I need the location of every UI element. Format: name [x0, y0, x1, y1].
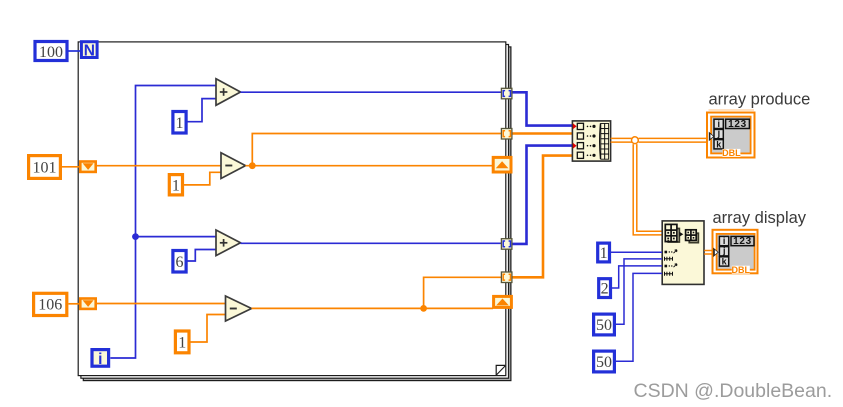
svg-text:i: i [98, 351, 102, 368]
2D array wire junction to array produce [639, 138, 710, 142]
svg-text:DBL: DBL [722, 148, 741, 158]
wire 50 to subset [616, 259, 662, 324]
array wire T1 to build array input1 [512, 92, 572, 125]
wire SR2 to sub2 [96, 303, 226, 305]
wire add2 output to tunnel T3 [241, 242, 502, 244]
wire 1 to subset [611, 251, 662, 253]
numeric constant 2 (subset index1) [599, 279, 611, 298]
wire 106 to shift register [69, 303, 81, 305]
numeric constant 101 [29, 156, 61, 179]
svg-text:1: 1 [172, 177, 180, 194]
loop count terminal N [81, 42, 97, 60]
add function U1 [216, 79, 241, 106]
numeric constant 106 [34, 293, 67, 315]
subtract function U2 [221, 153, 246, 179]
svg-text:101: 101 [33, 159, 57, 176]
tunnel T1 blue indexing [501, 88, 512, 99]
svg-text:array produce: array produce [709, 91, 811, 109]
tunnel T4 orange indexing [501, 272, 512, 283]
svg-text:6: 6 [176, 254, 184, 271]
for-loop back page 1 [81, 45, 509, 379]
wire 6 to add2 [188, 250, 217, 262]
svg-text:100: 100 [39, 44, 63, 61]
svg-text:1: 1 [600, 245, 608, 262]
junction on sub1 output [249, 162, 256, 169]
subtract function U4 [226, 296, 252, 321]
svg-text:j: j [722, 245, 726, 255]
svg-text:123: 123 [728, 119, 747, 130]
numeric constant 50 (subset length1) [594, 351, 615, 372]
wire 100 to N [69, 50, 81, 52]
coercion dot input1 [573, 123, 577, 129]
for-loop folded corner [496, 365, 505, 375]
svg-text:2: 2 [601, 281, 609, 298]
2D array wire junction down to array subset [633, 144, 662, 235]
svg-text:1: 1 [176, 115, 184, 132]
svg-text:DBL: DBL [732, 265, 751, 275]
2D array wire build array to junction [611, 138, 632, 142]
2D array wire subset to array display [704, 251, 714, 255]
junction on sub2 output [420, 305, 427, 312]
wire branch to tunnel T2 [252, 134, 501, 166]
wire branch to tunnel T4 [424, 277, 501, 308]
right shift register SR1 out [493, 157, 511, 172]
array subset node [662, 221, 704, 285]
2D array glyph (subset) [689, 233, 698, 242]
numeric constant 6 [173, 251, 186, 273]
indicator array display [713, 230, 758, 275]
numeric constant 1 (subset index0) [598, 243, 610, 262]
svg-text:50: 50 [596, 317, 612, 334]
add function U3 [216, 230, 241, 256]
build array node [572, 121, 610, 161]
svg-text:106: 106 [38, 297, 62, 314]
indicator array produce [707, 113, 755, 159]
arrow [679, 232, 683, 237]
for-loop N frame [78, 42, 506, 376]
array wire T3 to build array input3 [512, 146, 572, 244]
wire add1 output to tunnel T1 [241, 91, 502, 93]
svg-text:N: N [84, 43, 95, 60]
array junction circle [632, 137, 639, 144]
iteration terminal i [92, 350, 109, 368]
numeric constant 50 (subset length0) [594, 314, 615, 335]
coercion dot input3 [573, 143, 577, 149]
wire 1 to add1 [188, 99, 217, 122]
array wire T4 to build array input4 [512, 156, 572, 278]
svg-text:array display: array display [713, 209, 807, 227]
wire 50 to subset [616, 273, 662, 361]
wire sub2 output to SR right [252, 307, 494, 309]
wire 1 to sub1 [184, 172, 221, 185]
svg-text:50: 50 [596, 354, 612, 371]
svg-text:j: j [717, 128, 721, 138]
wire 101 to shift register [62, 166, 80, 168]
wire 2 to subset [612, 266, 662, 288]
array wire T2 to build array input2 [512, 132, 572, 135]
numeric constant 1 (second) [169, 175, 182, 195]
for-loop back page 2 [83, 47, 511, 381]
wire from i up the left rail [110, 86, 216, 359]
wire SR1 to sub1 [96, 165, 221, 167]
index/length glyphs [665, 250, 677, 276]
junction on i rail [132, 233, 139, 240]
wire 1 to sub2 [191, 315, 226, 343]
numeric constant 1 (bottom) [175, 331, 189, 353]
right shift register SR2 out [494, 296, 512, 307]
tunnel T3 blue indexing [501, 239, 512, 250]
svg-text:CSDN @.DoubleBean.: CSDN @.DoubleBean. [634, 380, 833, 402]
svg-text:123: 123 [733, 236, 752, 247]
left shift register SR2 [80, 299, 95, 309]
numeric constant 100 [35, 42, 67, 61]
svg-text:1: 1 [178, 334, 186, 351]
numeric constant 1 (top) [173, 112, 186, 134]
wire i rail to add2 [136, 236, 217, 238]
wire sub1 output to SR right [246, 165, 494, 167]
2D array glyph (source) [668, 229, 679, 243]
left shift register SR1 [80, 162, 95, 172]
tunnel T2 orange indexing [501, 129, 512, 140]
